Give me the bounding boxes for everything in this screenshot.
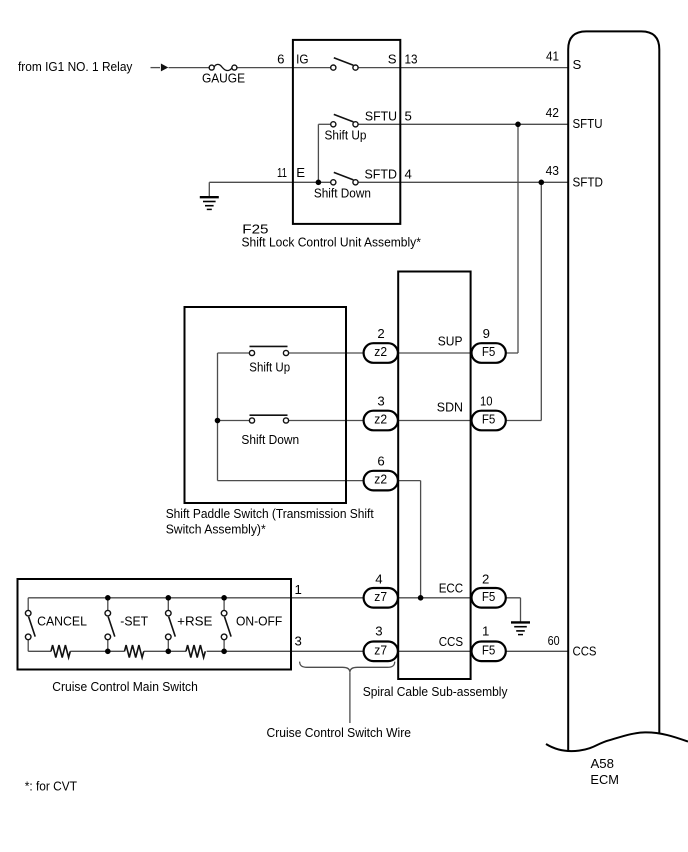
svg-text:F5: F5 xyxy=(482,344,496,359)
svg-text:GAUGE: GAUGE xyxy=(202,71,245,86)
svg-text:60: 60 xyxy=(548,633,560,648)
svg-text:IG: IG xyxy=(296,52,308,67)
svg-text:1: 1 xyxy=(295,582,302,597)
svg-text:SFTU: SFTU xyxy=(573,116,603,131)
svg-text:CANCEL: CANCEL xyxy=(37,614,87,629)
svg-text:Spiral Cable Sub-assembly: Spiral Cable Sub-assembly xyxy=(363,684,508,699)
svg-text:z7: z7 xyxy=(374,642,387,657)
svg-text:Shift Up: Shift Up xyxy=(249,359,290,374)
svg-text:ON-OFF: ON-OFF xyxy=(236,614,282,629)
svg-text:Shift Down: Shift Down xyxy=(314,185,371,200)
svg-text:z2: z2 xyxy=(374,412,387,427)
svg-text:Shift Lock Control Unit Assemb: Shift Lock Control Unit Assembly* xyxy=(242,234,421,249)
svg-text:ECC: ECC xyxy=(439,581,464,596)
svg-text:SFTU: SFTU xyxy=(365,109,397,124)
svg-text:41: 41 xyxy=(546,49,559,64)
svg-text:*: for CVT: *: for CVT xyxy=(25,778,77,793)
svg-text:42: 42 xyxy=(546,105,559,120)
svg-text:2: 2 xyxy=(377,326,384,341)
svg-text:5: 5 xyxy=(405,109,412,124)
svg-text:3: 3 xyxy=(377,393,384,408)
svg-text:SUP: SUP xyxy=(438,334,463,349)
svg-text:F5: F5 xyxy=(482,642,496,657)
svg-text:1: 1 xyxy=(482,624,489,639)
svg-text:2: 2 xyxy=(482,571,489,586)
svg-text:Shift Down: Shift Down xyxy=(241,432,299,447)
svg-text:from IG1 NO. 1 Relay: from IG1 NO. 1 Relay xyxy=(18,59,133,74)
svg-text:Switch Assembly)*: Switch Assembly)* xyxy=(166,522,266,537)
svg-text:Cruise Control Main Switch: Cruise Control Main Switch xyxy=(52,679,198,694)
svg-text:SFTD: SFTD xyxy=(365,167,398,182)
svg-text:CCS: CCS xyxy=(439,634,464,649)
svg-text:13: 13 xyxy=(405,52,418,67)
svg-text:A58: A58 xyxy=(591,756,615,771)
svg-text:43: 43 xyxy=(546,163,559,178)
svg-text:-SET: -SET xyxy=(120,614,148,629)
svg-text:11: 11 xyxy=(277,165,287,180)
svg-text:F5: F5 xyxy=(482,412,496,427)
svg-text:z2: z2 xyxy=(374,344,387,359)
svg-text:9: 9 xyxy=(483,326,490,341)
svg-text:SDN: SDN xyxy=(437,400,463,415)
svg-text:F5: F5 xyxy=(482,589,496,604)
svg-text:S: S xyxy=(573,57,582,72)
svg-text:SFTD: SFTD xyxy=(573,175,604,190)
svg-text:3: 3 xyxy=(295,633,302,648)
svg-text:ECM: ECM xyxy=(590,772,619,787)
svg-text:Shift Paddle Switch (Transmiss: Shift Paddle Switch (Transmission Shift xyxy=(166,506,374,521)
svg-text:+RSE: +RSE xyxy=(177,614,212,629)
svg-text:4: 4 xyxy=(375,571,382,586)
svg-text:z2: z2 xyxy=(374,472,387,487)
svg-text:6: 6 xyxy=(377,453,384,468)
svg-text:6: 6 xyxy=(277,52,284,67)
svg-text:S: S xyxy=(388,52,397,67)
svg-text:Shift Up: Shift Up xyxy=(325,128,367,143)
svg-text:3: 3 xyxy=(375,624,382,639)
svg-text:z7: z7 xyxy=(374,589,387,604)
svg-text:CCS: CCS xyxy=(573,643,597,658)
svg-text:E: E xyxy=(296,165,305,180)
svg-text:Cruise Control Switch Wire: Cruise Control Switch Wire xyxy=(267,725,412,740)
svg-text:4: 4 xyxy=(405,167,412,182)
svg-text:10: 10 xyxy=(480,393,493,408)
